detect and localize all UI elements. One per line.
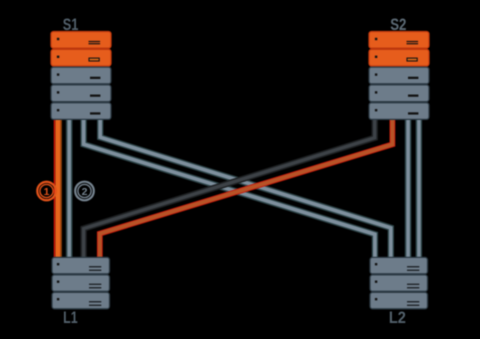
wire S2-L2 slate vertical band 2 — [416, 120, 423, 258]
svg-text:S1: S1 — [63, 15, 79, 34]
wire S2-L1 orange diagonal — [100, 120, 393, 258]
wire S1-L2 diagonal lower — [84, 120, 375, 258]
wire S1-L1 slate vertical band — [66, 120, 73, 258]
switch stack L1 — [52, 257, 110, 308]
callout circle 1 (orange) — [37, 182, 55, 200]
wire S1-L2 diagonal upper — [100, 120, 391, 258]
wire S2-L1 dark diagonal — [84, 120, 375, 258]
svg-text:L2: L2 — [389, 308, 406, 327]
wire S2-L2 slate vertical band 1 — [405, 120, 412, 258]
switch stack S1 — [51, 32, 111, 120]
svg-text:1: 1 — [44, 186, 50, 198]
svg-text:L1: L1 — [63, 308, 78, 327]
svg-text:S2: S2 — [390, 15, 406, 34]
wire S1-L1 orange vertical band with red edge — [54, 120, 62, 258]
callout circle 2 (gray) — [75, 182, 94, 201]
switch stack L2 — [370, 257, 428, 308]
svg-text:2: 2 — [82, 186, 88, 198]
switch stack S2 — [369, 32, 429, 120]
